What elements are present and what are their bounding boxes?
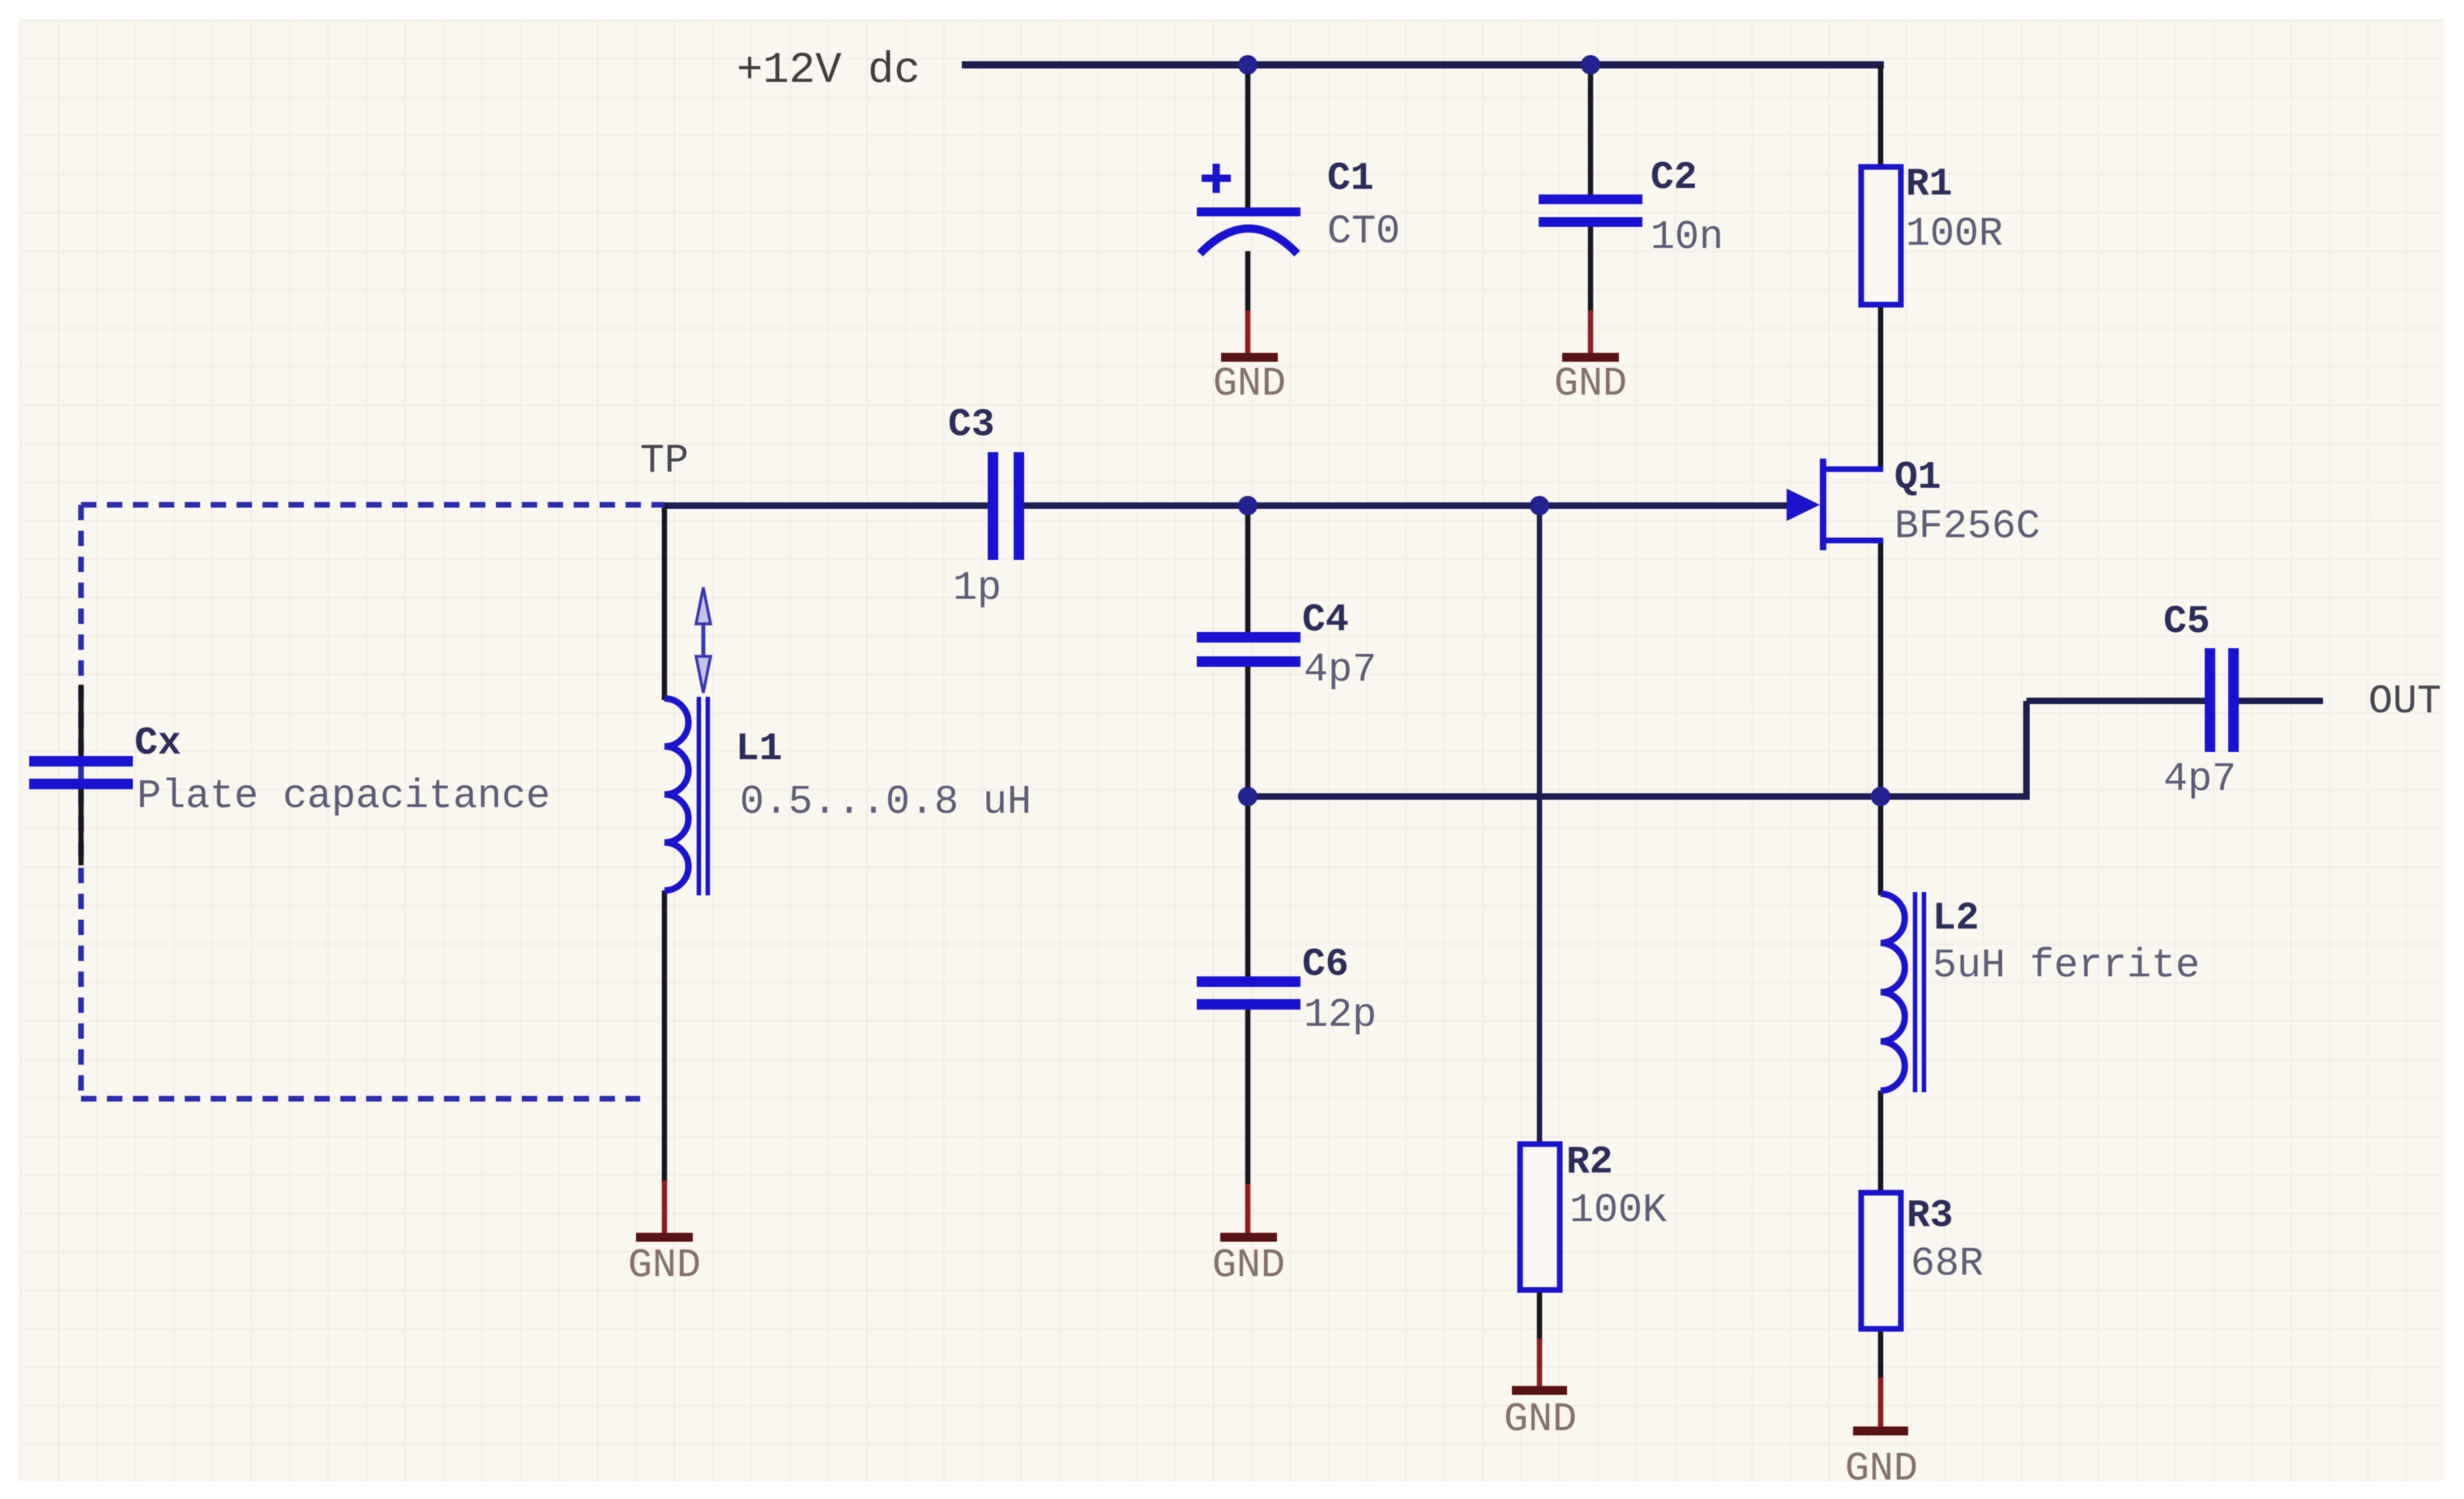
svg-text:R3: R3 bbox=[1907, 1194, 1954, 1238]
svg-text:0.5...0.8 uH: 0.5...0.8 uH bbox=[740, 779, 1031, 826]
svg-text:4p7: 4p7 bbox=[1304, 647, 1377, 694]
svg-text:Plate capacitance: Plate capacitance bbox=[137, 774, 550, 820]
svg-text:GND: GND bbox=[1504, 1397, 1577, 1443]
svg-text:Q1: Q1 bbox=[1894, 456, 1941, 500]
svg-text:5uH ferrite: 5uH ferrite bbox=[1932, 943, 2200, 989]
svg-text:C6: C6 bbox=[1302, 943, 1349, 987]
svg-text:C2: C2 bbox=[1650, 156, 1697, 200]
svg-text:TP: TP bbox=[640, 438, 689, 485]
svg-text:L2: L2 bbox=[1932, 897, 1979, 941]
svg-text:12p: 12p bbox=[1304, 993, 1377, 1039]
svg-text:OUT: OUT bbox=[2368, 679, 2441, 725]
svg-text:4p7: 4p7 bbox=[2163, 757, 2236, 803]
svg-text:BF256C: BF256C bbox=[1894, 504, 2040, 550]
svg-text:GND: GND bbox=[1845, 1446, 1918, 1493]
svg-text:1p: 1p bbox=[953, 566, 1001, 612]
svg-text:R2: R2 bbox=[1566, 1141, 1613, 1185]
svg-text:GND: GND bbox=[1212, 1243, 1285, 1289]
svg-text:C4: C4 bbox=[1302, 599, 1349, 643]
svg-text:C1: C1 bbox=[1327, 157, 1374, 201]
svg-text:GND: GND bbox=[1554, 361, 1627, 408]
svg-text:L1: L1 bbox=[736, 728, 783, 771]
svg-text:100R: 100R bbox=[1906, 211, 2003, 258]
svg-text:C5: C5 bbox=[2163, 600, 2210, 644]
svg-text:R1: R1 bbox=[1906, 163, 1953, 207]
svg-text:+12V dc: +12V dc bbox=[737, 46, 920, 96]
svg-text:68R: 68R bbox=[1911, 1241, 1984, 1288]
svg-text:Cx: Cx bbox=[135, 722, 181, 766]
svg-text:10n: 10n bbox=[1650, 215, 1723, 261]
svg-text:100K: 100K bbox=[1569, 1188, 1667, 1234]
svg-text:C3: C3 bbox=[948, 404, 995, 447]
svg-text:CT0: CT0 bbox=[1327, 209, 1400, 255]
svg-text:GND: GND bbox=[628, 1243, 701, 1289]
svg-text:GND: GND bbox=[1213, 361, 1286, 408]
